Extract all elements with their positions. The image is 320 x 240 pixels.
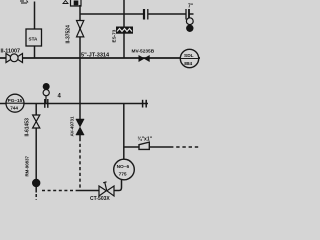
instrument NO-6 775 circle [114, 159, 135, 180]
wire vertical below main line to cross at y=103.5 and valve [79, 58, 81, 119]
wire dashed vertical bottom left [35, 194, 37, 200]
wire horizontal y=147 [124, 146, 170, 148]
valve CT-503X with actuator [99, 182, 114, 196]
component STA box [26, 29, 42, 46]
wire vertical x=124 mid [123, 104, 125, 160]
svg-text:II-11007: II-11007 [1, 49, 20, 55]
top bracket vent symbol [71, 0, 82, 6]
svg-text:MV-5235B: MV-5235B [132, 49, 155, 55]
wire solid y=190.5 to valve [77, 190, 99, 192]
wire vertical from top bracket through valve to main line [79, 5, 81, 58]
wire dashed vertical x=80 [79, 138, 81, 191]
wire horizontal y=14 branch [80, 13, 143, 15]
wire solid below AV valve [79, 135, 81, 138]
junction ball node [32, 179, 40, 187]
flange pair on y=103.5 left [45, 99, 48, 108]
valve MV-5235B (filled) [139, 56, 150, 62]
top small triangle mark [63, 1, 68, 4]
svg-text:II-37524: II-37524 [66, 25, 72, 44]
valve AV-49731 (filled vertical) [76, 119, 84, 135]
wire dashed horizontal y=190.5 [42, 190, 77, 192]
svg-text:7": 7" [188, 4, 194, 10]
svg-text:RM-90837: RM-90837 [25, 155, 30, 176]
wire valve outlet to circle riser [114, 180, 122, 191]
svg-text:744: 744 [10, 105, 18, 110]
valve II-11007 (ball valve on main line) [6, 54, 23, 63]
svg-text:AV-49731: AV-49731 [70, 116, 75, 137]
reducer fitting [139, 142, 149, 149]
valve II-61453 (vertical gate valve) [33, 115, 40, 128]
svg-text:775: 775 [119, 171, 127, 177]
svg-text:II-61453: II-61453 [25, 118, 31, 137]
wire vertical x=124 top [123, 0, 125, 58]
wire vertical x=36 left instrument drop [35, 104, 37, 116]
flange pair on y=103.5 right (end) [143, 100, 147, 108]
wire horizontal instrument line y=103.5 [0, 103, 148, 105]
svg-text:¾"x1": ¾"x1" [138, 136, 153, 143]
svg-text:5"-JT-3314: 5"-JT-3314 [81, 53, 110, 59]
svg-text:884: 884 [184, 61, 192, 67]
svg-text:NO–6: NO–6 [117, 164, 130, 170]
component ES-73 inline element (zigzag box) [116, 27, 133, 34]
vent circle and ball top right [186, 18, 193, 25]
svg-text:ES-73: ES-73 [112, 29, 117, 42]
svg-text:CT-503X: CT-503X [90, 196, 110, 200]
svg-text:SDL: SDL [184, 53, 194, 59]
flange pair on y=14 left [144, 9, 148, 20]
wire vertical STA drop [34, 2, 36, 30]
instrument PG-15 744 circle [6, 94, 24, 112]
flange pair on y=14 right with vent [186, 9, 189, 20]
wire dashed y=147 [170, 146, 200, 148]
top edge marks left [20, 1, 28, 4]
svg-text:PG–15: PG–15 [8, 98, 23, 103]
valve II-37524 (vertical gate valve) [77, 21, 84, 37]
vent ball and circle at left flange [43, 83, 50, 90]
svg-text:STA: STA [29, 37, 39, 42]
wire main horizontal line y=58 [0, 57, 200, 59]
instrument SDL 884 circle [180, 49, 198, 67]
